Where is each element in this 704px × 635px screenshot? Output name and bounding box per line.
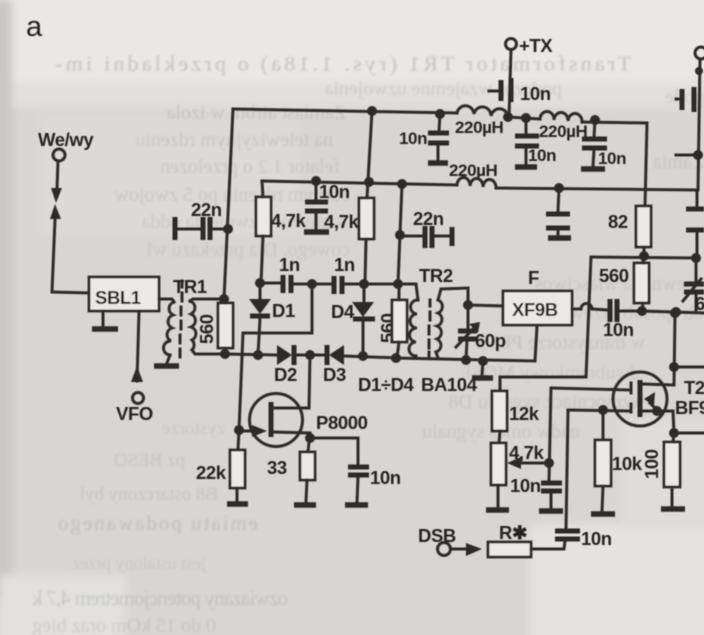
svg-text:BA104: BA104 [421, 374, 478, 395]
svg-text:B8 ostarczony byl: B8 ostarczony byl [80, 484, 218, 505]
svg-text:TR2: TR2 [419, 265, 453, 286]
wire to bypass cap [310, 438, 358, 464]
drain [643, 313, 675, 385]
capacitor 10n (to ground, x559) [558, 188, 559, 211]
svg-text:F: F [528, 267, 539, 288]
transistor P8000 (JFET) [250, 394, 303, 447]
svg-text:SBL1: SBL1 [95, 287, 141, 308]
svg-text:4,7k: 4,7k [509, 442, 545, 463]
svg-text:VFO: VFO [116, 403, 153, 424]
terminal +TX [506, 39, 517, 50]
svg-text:220µH: 220µH [539, 122, 588, 141]
ground [102, 311, 105, 327]
svg-text:jest ustalony przez: jest ustalony przez [72, 553, 207, 573]
svg-text:1n: 1n [279, 254, 300, 275]
svg-text:TR1: TR1 [173, 276, 207, 297]
wire [57, 161, 58, 188]
svg-text:DSB: DSB [418, 525, 456, 546]
wire [582, 122, 647, 206]
svg-text:D2: D2 [274, 364, 297, 385]
svg-text:560: 560 [196, 314, 217, 344]
capacitor 10n (right edge top) [682, 87, 694, 112]
output with hop [572, 304, 608, 311]
capacitor 10n (at +TX) [489, 90, 499, 93]
svg-text:cowego. Dla przekazu wl: cowego. Dla przekazu wl [146, 239, 350, 261]
capacitor 10n (series DSB) [555, 531, 580, 539]
wire rail 2 [262, 181, 457, 185]
wire from top rail to 4,7k right [367, 111, 372, 198]
trimmer 60p [463, 300, 473, 310]
svg-text:BF9: BF9 [675, 397, 704, 418]
svg-text:22n: 22n [191, 199, 222, 220]
capacitor 10n (to ground, x595) [594, 120, 595, 137]
capacitor (right edge, series) [686, 209, 704, 230]
svg-text:zystorze: zystorze [162, 418, 225, 439]
svg-text:220µH: 220µH [449, 161, 498, 180]
svg-text:We/wy: We/wy [38, 129, 94, 150]
wire rail 3 (1n row) [260, 283, 398, 284]
svg-text:12k: 12k [509, 403, 540, 424]
source with substrate arrow [643, 411, 674, 433]
wire to 12k [500, 257, 591, 391]
wire vertical left [224, 109, 233, 299]
wire L from 1n mid to gate node [239, 284, 312, 430]
svg-text:22n: 22n [413, 208, 444, 229]
svg-text:R✱: R✱ [499, 522, 528, 543]
wire [508, 117, 540, 119]
svg-text:4,7k: 4,7k [271, 210, 307, 231]
wire [52, 219, 89, 293]
svg-text:Zamiast airbtu w izola: Zamiast airbtu w izola [166, 102, 346, 124]
svg-text:10n: 10n [510, 475, 541, 496]
svg-text:33: 33 [267, 457, 287, 478]
svg-text:22k: 22k [196, 462, 227, 483]
wire rail bottom right [396, 326, 537, 361]
svg-text:10n: 10n [399, 129, 427, 148]
right edge network [695, 47, 704, 59]
svg-text:na telewizyjnym rdzeniu: na telewizyjnym rdzeniu [135, 129, 333, 151]
mixer SBL1 [89, 277, 159, 311]
svg-text:60p: 60p [475, 330, 506, 351]
svg-text:1n: 1n [334, 254, 355, 275]
svg-text:10n: 10n [528, 146, 556, 165]
svg-text:10n: 10n [581, 528, 612, 549]
svg-text:220µH: 220µH [455, 118, 504, 137]
svg-text:P8000: P8000 [316, 412, 368, 433]
node [219, 294, 229, 304]
svg-text:D1: D1 [272, 300, 295, 321]
trimmer (right edge) [684, 284, 704, 292]
capacitor 10n (series out) [610, 299, 617, 322]
svg-text:felator 1.2 o przelozen: felator 1.2 o przelozen [160, 156, 340, 178]
wire top rail [233, 109, 457, 113]
svg-text:XF9B: XF9B [512, 299, 558, 320]
output line [642, 311, 704, 313]
capacitor 10n (source bypass) [348, 467, 369, 475]
svg-text:10n: 10n [520, 83, 551, 104]
svg-text:10k: 10k [612, 453, 643, 474]
gate1 line A [549, 388, 551, 481]
svg-text:D1÷D4: D1÷D4 [358, 374, 415, 395]
svg-text:560: 560 [599, 265, 629, 286]
capacitor 10n (to ground, x526) [525, 118, 528, 134]
bidirectional arrow [51, 188, 62, 203]
svg-text:T2: T2 [684, 377, 704, 398]
gate2 line B [566, 410, 568, 529]
svg-text:82: 82 [608, 211, 628, 232]
svg-text:ozwiazany potencjometrem 4,7 k: ozwiazany potencjometrem 4,7 k [32, 586, 289, 610]
svg-text:0 do 15 kOm oraz bieg: 0 do 15 kOm oraz bieg [32, 615, 216, 635]
svg-text:pz BESO: pz BESO [114, 450, 185, 471]
svg-text:6: 6 [695, 293, 704, 314]
svg-text:4,7k: 4,7k [324, 211, 360, 232]
svg-text:D3: D3 [323, 364, 346, 385]
svg-text:10n: 10n [598, 149, 626, 168]
svg-text:D4: D4 [331, 301, 355, 322]
svg-text:+TX: +TX [519, 35, 553, 56]
svg-text:10n: 10n [603, 319, 634, 340]
svg-text:10n: 10n [370, 467, 401, 488]
VFO terminal [131, 366, 143, 382]
wire rail 4 (diode ring row) [225, 354, 398, 358]
svg-text:10n: 10n [319, 181, 350, 202]
svg-text:a: a [26, 11, 43, 43]
wire [137, 311, 139, 381]
svg-text:100: 100 [641, 449, 662, 479]
wire x402 vertical [398, 184, 402, 284]
